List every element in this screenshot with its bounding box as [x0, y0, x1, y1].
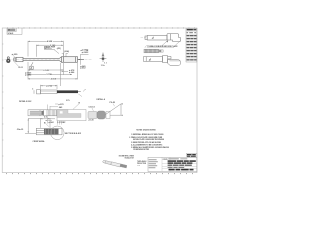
- svg-text:OTHERWISE NOTED: OTHERWISE NOTED: [133, 149, 150, 151]
- svg-text:3.780: 3.780: [46, 74, 52, 76]
- svg-text:⌀.0936: ⌀.0936: [82, 49, 89, 52]
- svg-text:◐—◊: ◐—◊: [137, 165, 140, 167]
- svg-text:NOTE 6: NOTE 6: [44, 48, 52, 50]
- svg-text:DETAIL B 20X: DETAIL B 20X: [19, 100, 32, 103]
- svg-text:A: A: [30, 66, 32, 70]
- svg-text:.50±.01: .50±.01: [17, 129, 25, 131]
- svg-text:⌀.062: ⌀.062: [49, 121, 55, 124]
- svg-text:2.165: 2.165: [43, 70, 49, 72]
- svg-text:⌀.0932: ⌀.0932: [82, 51, 89, 54]
- svg-text:PROJECTION: PROJECTION: [137, 163, 146, 165]
- svg-text:4.938: 4.938: [47, 40, 53, 43]
- svg-text:⌀.032: ⌀.032: [80, 67, 86, 70]
- svg-text:P0.45: P0.45: [110, 101, 116, 104]
- svg-text:DETAIL A: DETAIL A: [97, 98, 106, 101]
- svg-text:(.094): (.094): [64, 50, 69, 53]
- svg-text:CONTR: CONTR: [163, 159, 168, 161]
- svg-text:(.575): (.575): [46, 86, 52, 88]
- svg-text:SCALE 8X: SCALE 8X: [125, 157, 135, 160]
- svg-text:NOTES: UNLESS NOTED: NOTES: UNLESS NOTED: [136, 129, 156, 131]
- svg-text:CRIMP AREA: CRIMP AREA: [33, 140, 46, 143]
- svg-text:1.27 REF: 1.27 REF: [57, 122, 66, 124]
- svg-text:⌀1.30: ⌀1.30: [89, 119, 95, 122]
- svg-text:⌀.020: ⌀.020: [12, 53, 18, 56]
- svg-text:NICKEL PLATE .000050 MIN THICK: NICKEL PLATE .000050 MIN THICKNESS: [133, 138, 165, 141]
- svg-text:1. MATERIAL: BRASS ALLOY UNS C: 1. MATERIAL: BRASS ALLOY UNS C36000: [131, 133, 163, 136]
- svg-text:(4X): (4X): [57, 47, 61, 50]
- svg-text:⌀.0615: ⌀.0615: [25, 73, 32, 76]
- svg-text:SCALE: SCALE: [8, 32, 15, 35]
- svg-text:⌀.066: ⌀.066: [69, 71, 75, 74]
- svg-text:4.500: 4.500: [51, 78, 57, 81]
- svg-text:SECTION B-B 40X: SECTION B-B 40X: [65, 132, 82, 135]
- svg-text:⌀.078: ⌀.078: [58, 103, 64, 106]
